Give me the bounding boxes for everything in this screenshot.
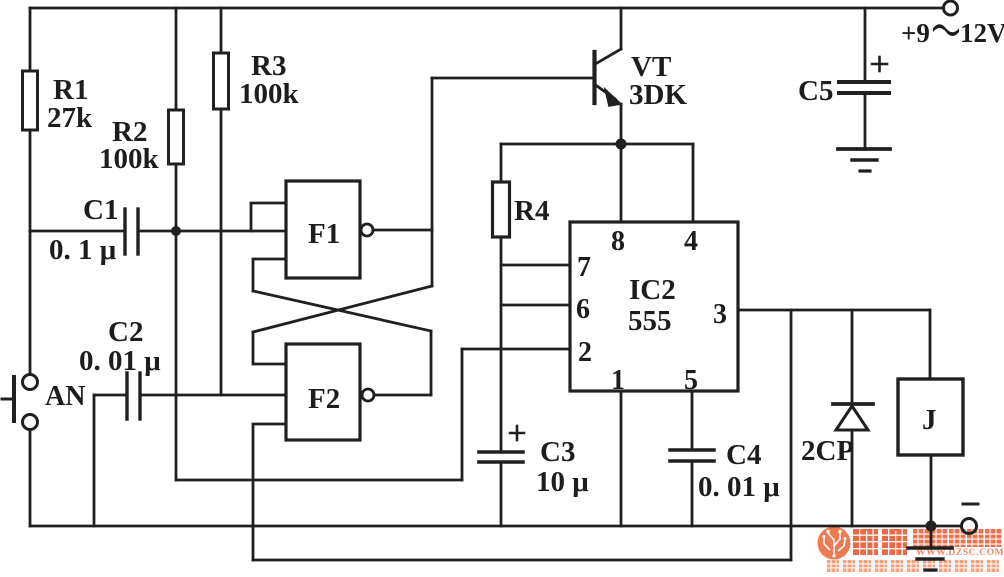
label C1 0.1u xyxy=(49,194,118,266)
svg-text:AN: AN xyxy=(45,381,85,412)
resistor R4 xyxy=(493,182,510,237)
svg-text:C2: C2 xyxy=(108,316,143,348)
svg-text:555: 555 xyxy=(628,305,672,337)
svg-text:12V: 12V xyxy=(960,18,1004,48)
wire bottom jog to pin2 riser xyxy=(176,479,462,482)
watermark characters 电子市场网 xyxy=(913,529,1002,547)
watermark big characters 维库 xyxy=(853,529,907,555)
label R1 27k xyxy=(47,74,93,134)
label C3 10u xyxy=(536,436,589,498)
wire into pin 2 xyxy=(462,348,570,351)
wire F1 upper input jog xyxy=(251,203,286,231)
wire pin2 riser xyxy=(461,349,464,480)
wire F1 output xyxy=(373,229,432,232)
junction node ground/relay xyxy=(926,521,937,532)
svg-text:4: 4 xyxy=(684,226,698,257)
wire F2 lower input jog xyxy=(253,424,286,560)
wire C3 to ground rail xyxy=(500,462,503,526)
capacitor C5 xyxy=(839,82,889,93)
svg-text:IC2: IC2 xyxy=(629,274,676,306)
wire R4 bottom to C3 xyxy=(500,237,503,452)
svg-text:0. 01 μ: 0. 01 μ xyxy=(79,345,161,377)
wire C2 to F2 input xyxy=(140,394,286,397)
wire pin 5 to C4 xyxy=(691,391,694,450)
capacitor C2 xyxy=(127,373,140,419)
wire pin 6 xyxy=(501,304,570,307)
label +9~12V xyxy=(901,18,1004,48)
F2 output bubble xyxy=(362,389,374,401)
wire R2 bottom to C1 node xyxy=(175,164,178,231)
svg-text:3DK: 3DK xyxy=(629,79,687,111)
svg-text:2: 2 xyxy=(578,337,592,368)
wire pin 7 xyxy=(501,264,570,267)
wire R2 branch from rail xyxy=(175,8,178,110)
wire pin3 corner down to relay xyxy=(929,310,932,379)
relay J xyxy=(898,379,963,455)
wire top supply rail xyxy=(30,7,943,10)
wire pin 1 to ground rail xyxy=(620,391,623,526)
wire C2 row left segment xyxy=(94,394,127,397)
wire C4 to ground rail xyxy=(691,461,694,526)
gate F1 xyxy=(286,181,360,278)
label VT 3DK xyxy=(629,51,687,111)
svg-text:2CP: 2CP xyxy=(801,435,854,467)
capacitor C3 xyxy=(479,452,523,462)
resistor R1 xyxy=(23,71,38,130)
junction node C1/R2 xyxy=(171,226,181,236)
wire cross diagonal F1-to-F2 xyxy=(253,291,431,331)
svg-text:+9: +9 xyxy=(901,18,930,48)
C5 plus sign xyxy=(872,57,887,71)
terminal + (top right) xyxy=(944,1,958,15)
watermark slogan row 专业电子元器件交易网站 xyxy=(827,560,999,572)
svg-text:C1: C1 xyxy=(83,194,118,226)
svg-text:27k: 27k xyxy=(47,102,93,134)
wire C1 node down to button xyxy=(29,231,32,375)
wire R3 branch from rail xyxy=(220,8,223,53)
label R2 100k xyxy=(99,116,160,175)
minus sign xyxy=(963,503,978,506)
resistor R3 xyxy=(214,53,229,109)
svg-text:6: 6 xyxy=(576,294,590,325)
wire pin 8 xyxy=(620,144,623,222)
svg-text:7: 7 xyxy=(577,252,591,283)
svg-text:C4: C4 xyxy=(726,439,761,471)
svg-text:3: 3 xyxy=(713,299,727,330)
svg-text:8: 8 xyxy=(611,226,625,257)
WATERMARK-LAYER xyxy=(818,527,1004,573)
label IC2 555 xyxy=(628,274,676,337)
svg-text:10 μ: 10 μ xyxy=(536,466,589,498)
label C4 0.01u xyxy=(698,439,780,503)
wire down to R4 xyxy=(500,144,503,182)
wire VT base xyxy=(432,77,593,80)
wire R3 bottom down to C2 line xyxy=(220,109,223,395)
wire left branch upper xyxy=(29,8,32,71)
svg-text:C5: C5 xyxy=(798,75,833,107)
ground (C5) xyxy=(838,149,890,171)
svg-text:100k: 100k xyxy=(99,143,160,175)
C3 plus sign xyxy=(510,426,524,440)
ground (bottom right) xyxy=(908,526,952,570)
wire button bottom to ground rail xyxy=(29,430,32,527)
svg-text:F1: F1 xyxy=(308,218,340,250)
label R3 100k xyxy=(239,50,300,110)
transistor VT xyxy=(595,8,622,144)
wire F2 upper input jog xyxy=(253,332,286,364)
capacitor C4 xyxy=(670,450,714,461)
resistor R2 xyxy=(169,110,184,164)
wire pin 3 output xyxy=(738,309,930,312)
junction node emitter xyxy=(616,139,627,150)
svg-text:F2: F2 xyxy=(308,383,340,415)
wire feedback bottom run xyxy=(253,559,791,562)
wire C1 row left xyxy=(30,230,125,233)
gate F2 xyxy=(286,344,360,440)
svg-text:0. 1 μ: 0. 1 μ xyxy=(49,234,117,266)
wire pin 4 xyxy=(692,144,695,222)
label C2 0.01u xyxy=(79,316,161,377)
svg-text:1: 1 xyxy=(611,365,625,396)
svg-text:0. 01 μ: 0. 01 μ xyxy=(698,471,780,503)
wire relay to ground rail xyxy=(930,455,933,526)
IC U1 IC2 555 xyxy=(570,222,738,391)
wire C1 to F1 input xyxy=(138,230,286,233)
capacitor C1 xyxy=(125,209,138,254)
push button AN xyxy=(2,375,38,430)
wire feedback riser to pin3 line xyxy=(790,310,793,560)
svg-text:100k: 100k xyxy=(239,78,300,110)
wire F1 output riser to VT base xyxy=(431,78,434,286)
watermark logo circle xyxy=(818,527,851,560)
wire emitter rail 8/4 xyxy=(501,143,693,146)
terminal - (bottom right) xyxy=(962,519,977,534)
wire C5 branch from rail xyxy=(864,8,867,80)
wire C5 to ground xyxy=(864,93,867,149)
svg-text:R4: R4 xyxy=(514,195,549,227)
wire F1 lower input jog xyxy=(253,259,286,291)
diode 2CP xyxy=(833,310,873,526)
F1 output bubble xyxy=(361,224,373,236)
wire C1 node down xyxy=(175,231,178,480)
wire cross diagonal F2-to-F1 xyxy=(253,286,432,332)
wire bottom ground rail xyxy=(30,525,961,528)
wire F2 output xyxy=(374,394,431,397)
svg-text:C3: C3 xyxy=(540,436,575,468)
wire F2 output riser xyxy=(430,331,433,395)
wire R1 bottom to C1 node xyxy=(29,130,32,231)
wire C2 left to ground rail xyxy=(93,395,96,526)
svg-text:J: J xyxy=(922,404,937,436)
